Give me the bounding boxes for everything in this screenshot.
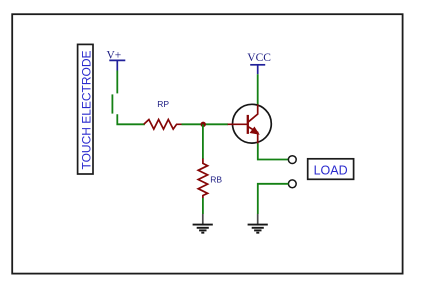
resistor RP xyxy=(144,120,182,130)
transistor base pin xyxy=(228,123,248,125)
emitter arrow xyxy=(251,128,259,134)
terminal pad top xyxy=(288,156,296,164)
svg-text:V+: V+ xyxy=(107,49,122,61)
wire RP to base xyxy=(182,123,229,125)
wire RB to ground xyxy=(202,198,204,214)
ground (below RB) xyxy=(193,214,213,233)
wire VCC to collector xyxy=(257,74,259,104)
svg-text:VCC: VCC xyxy=(247,52,271,64)
power port VCC xyxy=(250,65,265,74)
junction node xyxy=(201,122,206,127)
svg-text:RB: RB xyxy=(210,174,222,184)
wire emitter to terminal xyxy=(258,143,289,159)
transistor collector xyxy=(248,105,258,123)
wire bottom terminal to ground xyxy=(258,184,289,214)
wire switch to RP xyxy=(117,114,145,124)
svg-text:LOAD: LOAD xyxy=(314,164,348,178)
terminal pad bottom xyxy=(288,180,296,188)
transistor base bar xyxy=(247,115,249,134)
TOUCH ELECTRODE label box xyxy=(78,44,93,174)
svg-text:TOUCH ELECTRODE: TOUCH ELECTRODE xyxy=(79,50,93,169)
transistor emitter xyxy=(248,127,258,144)
LOAD label box xyxy=(308,159,354,180)
transistor Q1 body circle xyxy=(233,104,272,143)
wire junction down to RB xyxy=(202,124,204,159)
switch blade (touch contact bar) xyxy=(111,94,113,113)
power port V+ xyxy=(109,60,125,70)
wire V+ to switch xyxy=(116,71,118,94)
svg-text:RP: RP xyxy=(157,99,169,109)
ground (load return) xyxy=(248,214,268,233)
resistor RB xyxy=(198,159,207,198)
